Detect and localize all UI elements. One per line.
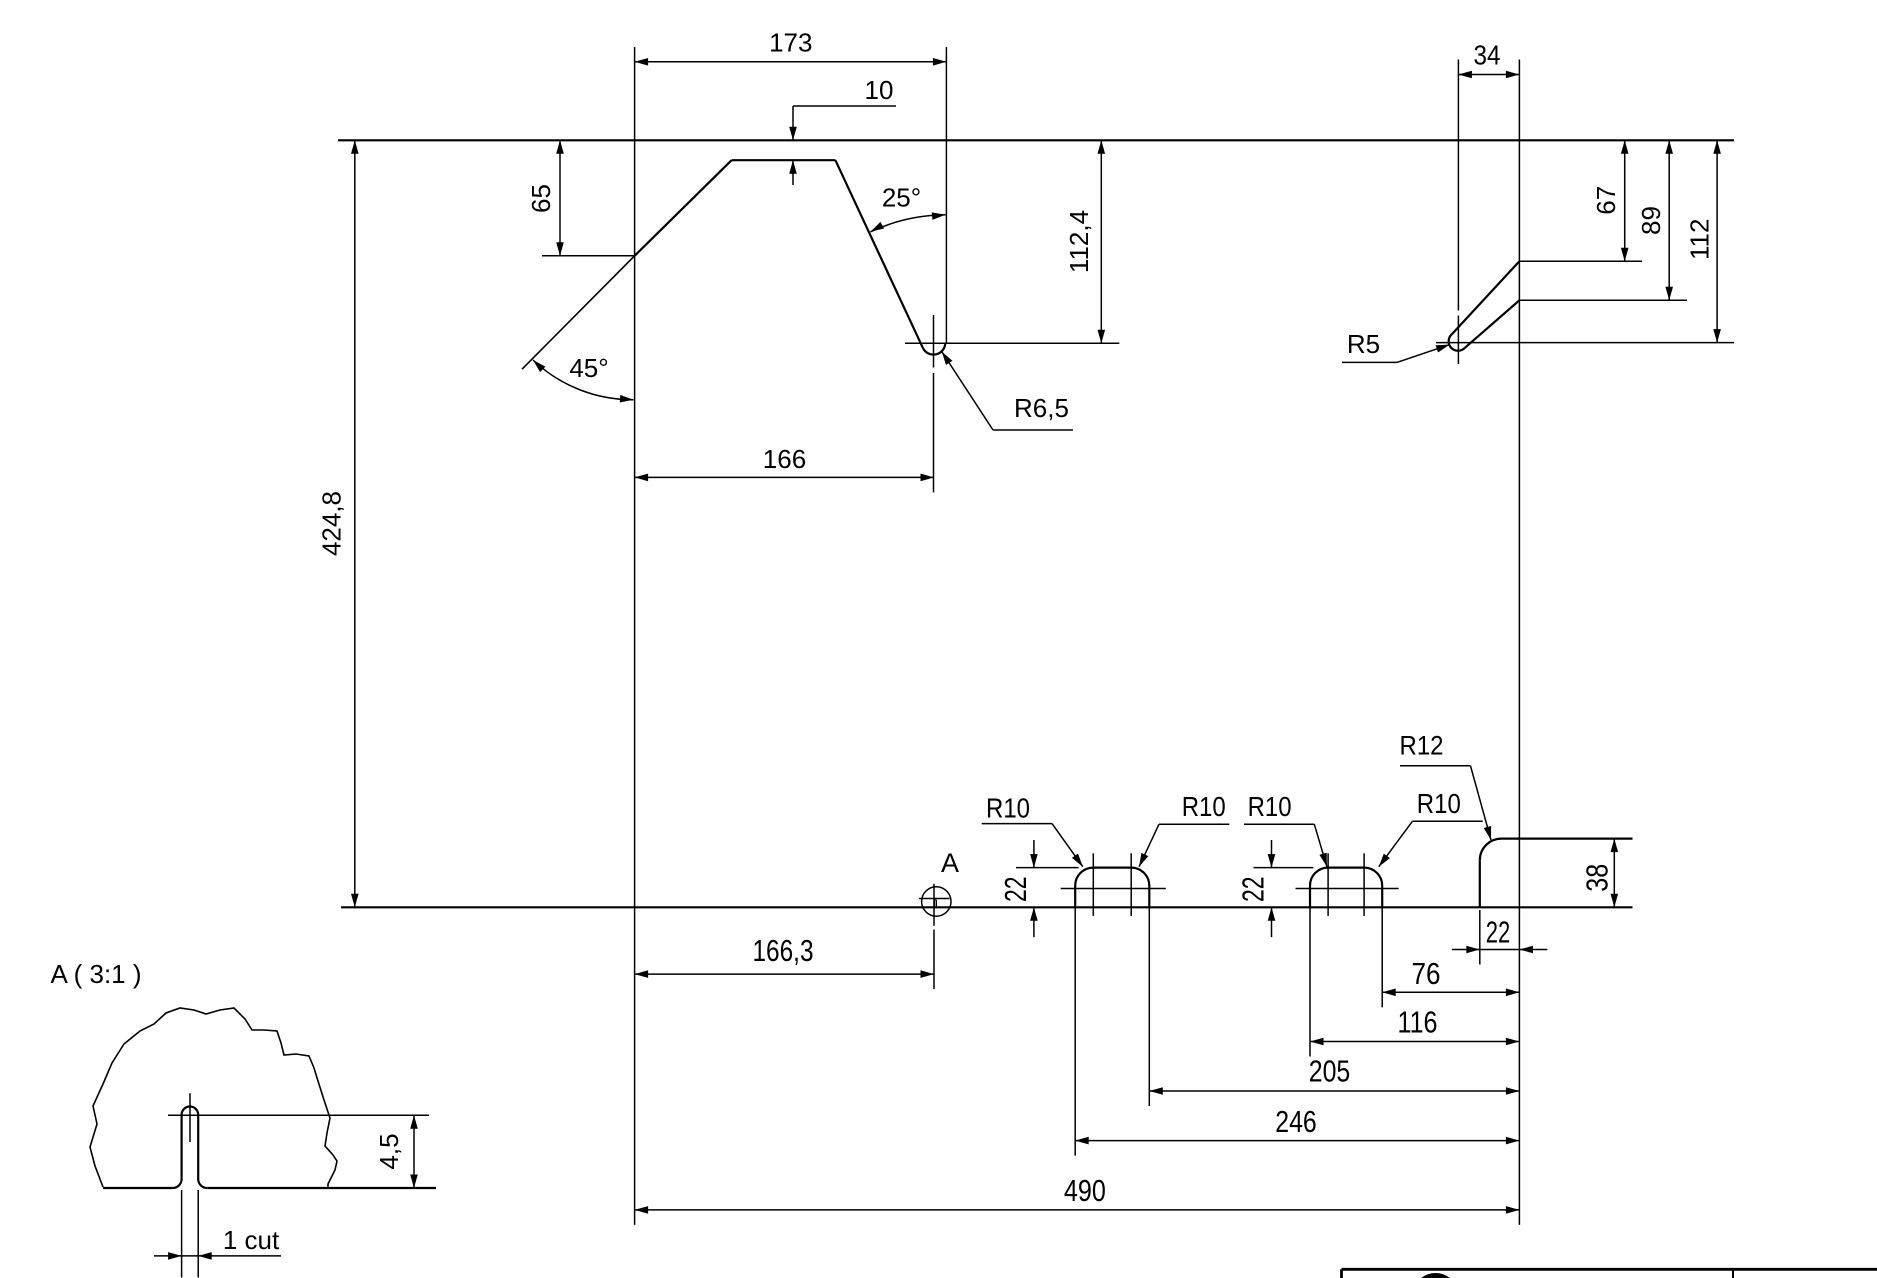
dimension 34 (1458, 74, 1519, 76)
detail bottom edge right (207, 1187, 436, 1189)
svg-text:205: 205 (1309, 1054, 1351, 1089)
svg-text:112,4: 112,4 (1064, 210, 1094, 273)
bump 1 profile R10 (1075, 868, 1149, 908)
dimension 424,8 (354, 140, 356, 907)
bump2 left extension (1309, 907, 1311, 1056)
svg-text:490: 490 (1064, 1173, 1106, 1208)
detail tangent line (168, 1114, 429, 1116)
dimension 166,3 (635, 973, 934, 975)
svg-text:22: 22 (998, 877, 1033, 903)
dimension 112,4 (1100, 140, 1102, 343)
svg-text:116: 116 (1398, 1005, 1438, 1040)
dimension 166 (635, 476, 934, 478)
svg-text:R12: R12 (1400, 731, 1444, 761)
bump 1 tangent ticks (1092, 853, 1094, 916)
slit at A (935, 900, 937, 908)
svg-text:166,3: 166,3 (753, 933, 814, 968)
bump1 right extension (1148, 907, 1150, 1106)
svg-text:R10: R10 (1417, 788, 1461, 819)
svg-text:246: 246 (1275, 1104, 1317, 1139)
leader R12 (1400, 765, 1471, 767)
dimension 116 (1310, 1041, 1519, 1043)
detail slit (173, 1107, 208, 1188)
extension line point A (933, 884, 935, 926)
leader R10 c (1244, 823, 1314, 825)
dimension 112 (1716, 140, 1718, 342)
svg-text:65: 65 (526, 184, 556, 213)
slot lower edge (1465, 300, 1520, 348)
dimension 246 (1075, 1140, 1519, 1142)
part bottom edge (341, 906, 1633, 908)
svg-text:166: 166 (763, 444, 806, 474)
extension line 112 horizontal (1436, 342, 1734, 344)
svg-text:R6,5: R6,5 (1014, 393, 1069, 423)
svg-text:R10: R10 (986, 793, 1030, 824)
dimension 490 (635, 1209, 1520, 1211)
svg-text:A: A (941, 848, 959, 878)
dimension 1 cut (154, 1255, 281, 1257)
svg-text:89: 89 (1636, 206, 1666, 235)
svg-text:22: 22 (1486, 915, 1511, 950)
dimension 205 (1149, 1090, 1519, 1092)
leader R10 a (982, 823, 1052, 825)
svg-text:76: 76 (1412, 956, 1441, 991)
dimension 22 bump 1 (1033, 840, 1035, 868)
45deg construction line (522, 256, 635, 369)
step corner R12 arc (1480, 839, 1502, 861)
svg-text:22: 22 (1236, 877, 1271, 903)
step top edge (1502, 837, 1633, 839)
extension line right vertical (1518, 60, 1520, 1225)
title block border (1342, 1268, 1877, 1271)
dimension 173 (635, 61, 947, 63)
bump2 right extension (1381, 907, 1383, 1007)
leader R6,5 (993, 429, 1073, 431)
extension line 65 horizontal (542, 255, 635, 257)
svg-text:1 cut: 1 cut (223, 1225, 280, 1255)
bump 2 tangent ticks (1327, 853, 1329, 916)
detail slit extension lines (181, 1190, 183, 1278)
trapezoid left slope (635, 160, 732, 256)
svg-text:112: 112 (1685, 219, 1715, 260)
extension line 89 horizontal (1519, 299, 1687, 301)
extension line 67 horizontal (1519, 260, 1642, 262)
dimension 89 (1668, 140, 1670, 300)
detail break outline (90, 1008, 337, 1187)
svg-text:424,8: 424,8 (317, 491, 347, 556)
svg-text:R5: R5 (1347, 329, 1380, 359)
svg-text:173: 173 (769, 28, 812, 58)
dimension 67 (1624, 140, 1626, 261)
dimension 22 bump 2 (1271, 840, 1273, 868)
dimension 38 (1613, 839, 1615, 908)
step left edge (1479, 860, 1481, 907)
svg-text:4,5: 4,5 (374, 1133, 404, 1169)
detail marker circle A (922, 887, 951, 916)
tip centre line vertical (933, 315, 935, 368)
slot tip R5 arc (1449, 335, 1465, 351)
svg-text:A ( 3:1 ): A ( 3:1 ) (50, 959, 141, 989)
dimension 76 (1382, 991, 1519, 993)
trapezoid top flat (732, 159, 836, 161)
svg-text:R10: R10 (1248, 791, 1292, 822)
extension line 112,4 horizontal (905, 342, 1119, 344)
dimension 4,5 (413, 1115, 415, 1188)
leader R10 b (1159, 823, 1229, 825)
leader R10 d (1412, 820, 1482, 822)
leader R5 (1342, 361, 1397, 363)
svg-text:34: 34 (1474, 40, 1501, 71)
dimension 22 step (1480, 949, 1520, 951)
dimension 65 (559, 140, 561, 256)
slot upper edge (1452, 261, 1520, 334)
trapezoid right slope 25deg (835, 160, 923, 348)
svg-text:R10: R10 (1182, 791, 1226, 822)
step extension 22 vertical (1479, 910, 1481, 965)
dimension 25deg (871, 215, 946, 232)
extension line x946 (173/25deg) (945, 47, 947, 343)
svg-text:67: 67 (1591, 186, 1621, 215)
title block logo (1417, 1273, 1455, 1278)
extension line left vertical (634, 47, 636, 1225)
detail slit centre line (189, 1093, 191, 1142)
bump 2 profile R10 (1310, 868, 1382, 908)
extension line 34 vertical (1457, 60, 1459, 311)
tip radius R6,5 arc (923, 343, 945, 354)
part top edge (338, 139, 1734, 141)
svg-text:38: 38 (1580, 864, 1615, 892)
dimension 10 (792, 106, 794, 140)
svg-text:25°: 25° (882, 183, 921, 213)
dimension 45deg (533, 360, 634, 400)
svg-text:10: 10 (865, 75, 894, 105)
bump1 left extension (1074, 907, 1076, 1155)
detail bottom edge left (103, 1187, 173, 1189)
svg-text:45°: 45° (569, 353, 608, 383)
